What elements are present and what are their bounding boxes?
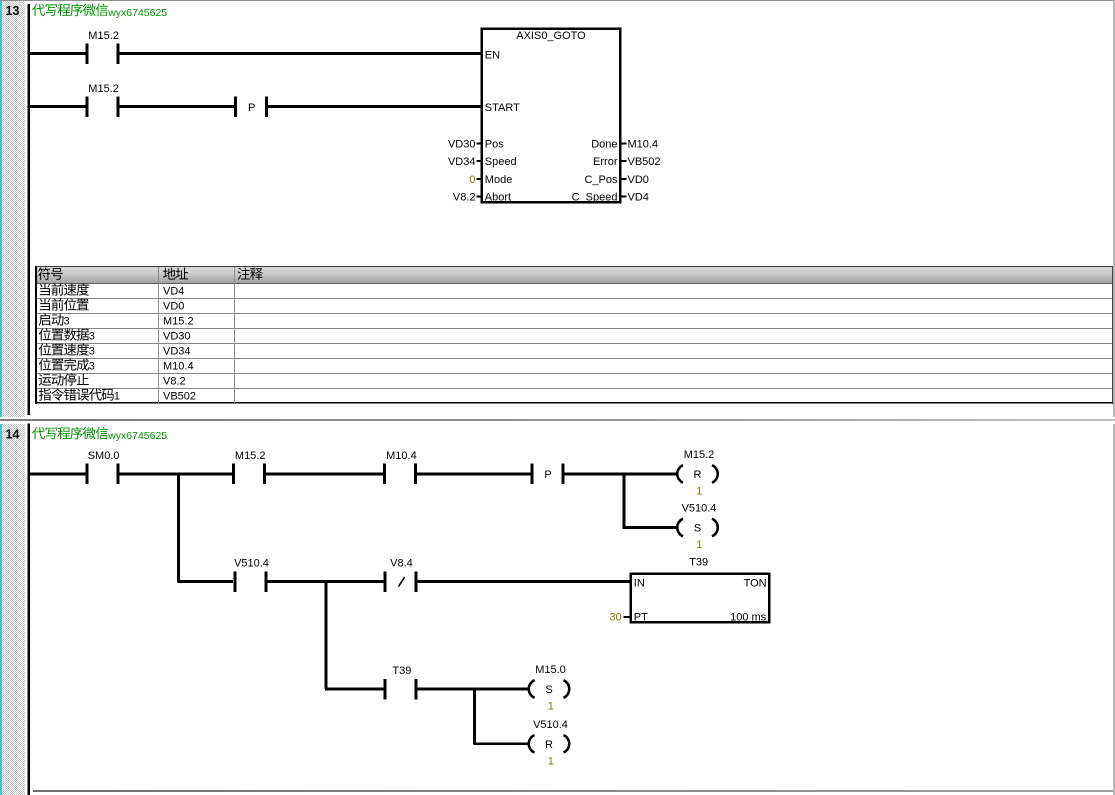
svg-text:wyx6745625: wyx6745625 bbox=[107, 7, 167, 19]
svg-text:Error: Error bbox=[593, 156, 618, 168]
bottom divider (next table edge) bbox=[33, 790, 1113, 792]
branch node C vertical bbox=[325, 580, 328, 689]
wire V8.4 to timer IN bbox=[416, 580, 631, 583]
svg-text:M15.2: M15.2 bbox=[88, 83, 119, 95]
svg-text:Pos: Pos bbox=[485, 139, 504, 151]
branch node to S coil bbox=[622, 473, 625, 528]
network 13/14 divider bbox=[0, 417, 1115, 424]
svg-text:M15.2: M15.2 bbox=[235, 450, 266, 462]
output operands Done/Error/C_Pos/C_Speed bbox=[621, 139, 661, 204]
svg-text:VD0: VD0 bbox=[628, 174, 649, 186]
coil R M15.2 bbox=[677, 449, 718, 497]
svg-text:3: 3 bbox=[64, 316, 70, 328]
contact M15.2 rung 2 bbox=[85, 83, 119, 117]
contact V8.4 (NC) bbox=[383, 558, 417, 592]
network 14 title comment bbox=[32, 427, 167, 442]
svg-text:M10.4: M10.4 bbox=[628, 139, 659, 151]
svg-text:1: 1 bbox=[114, 391, 120, 403]
svg-text:VD34: VD34 bbox=[448, 156, 476, 168]
input operands Pos/Speed/Mode/Abort bbox=[448, 139, 481, 204]
svg-text:13: 13 bbox=[6, 4, 20, 18]
svg-text:1: 1 bbox=[696, 539, 702, 551]
svg-text:VD0: VD0 bbox=[163, 301, 184, 313]
svg-text:M10.4: M10.4 bbox=[386, 450, 417, 462]
coil S V510.4 bbox=[677, 503, 718, 551]
wire M15.2 to contact M10.4 bbox=[265, 472, 384, 475]
svg-text:V510.4: V510.4 bbox=[533, 719, 568, 731]
svg-text:P: P bbox=[544, 469, 551, 481]
svg-text:IN: IN bbox=[634, 577, 645, 589]
svg-text:M15.0: M15.0 bbox=[535, 664, 566, 676]
contact V510.4 bbox=[233, 558, 269, 592]
symbol row V8.2 bbox=[39, 373, 186, 387]
column separator 1 bbox=[158, 267, 159, 403]
svg-text:S: S bbox=[545, 684, 552, 696]
svg-text:3: 3 bbox=[89, 346, 95, 358]
svg-text:Mode: Mode bbox=[485, 174, 513, 186]
symbol row VD34 bbox=[39, 343, 191, 357]
svg-text:S: S bbox=[694, 523, 701, 535]
svg-text:START: START bbox=[485, 102, 520, 114]
svg-text:C_Pos: C_Pos bbox=[584, 174, 618, 186]
power rail network 14 bbox=[27, 424, 30, 795]
contact T39 bbox=[384, 665, 418, 699]
svg-text:VD34: VD34 bbox=[163, 346, 191, 358]
svg-text:M15.2: M15.2 bbox=[163, 316, 194, 328]
svg-text:Speed: Speed bbox=[485, 156, 517, 168]
wire contact to P edge detector bbox=[119, 105, 234, 108]
svg-text:3: 3 bbox=[89, 361, 95, 373]
wire SM0.0 to contact M15.2 bbox=[119, 472, 233, 475]
symbol row VD30 bbox=[39, 328, 191, 342]
symbol table row separators bbox=[37, 298, 1113, 299]
svg-text:VD4: VD4 bbox=[163, 286, 184, 298]
top pane border bbox=[0, 0, 1115, 1]
svg-text:EN: EN bbox=[485, 50, 500, 62]
wire rail to contact SM0.0 bbox=[28, 472, 86, 475]
branch node D vertical bbox=[473, 688, 476, 744]
svg-text:Abort: Abort bbox=[485, 192, 511, 204]
left teal pane edge bbox=[0, 0, 2, 795]
wire branch C to contact T39 bbox=[325, 688, 385, 691]
symbol row M15.2 bbox=[39, 313, 194, 327]
svg-text:M15.2: M15.2 bbox=[88, 30, 119, 42]
svg-text:V510.4: V510.4 bbox=[234, 558, 269, 570]
symbol row VB502 bbox=[39, 388, 196, 402]
symbol row VD4 bbox=[40, 283, 185, 297]
svg-text:0: 0 bbox=[469, 174, 475, 186]
timer block T39 TON bbox=[631, 557, 770, 624]
svg-text:C_Speed: C_Speed bbox=[572, 192, 618, 204]
P positive edge contact bbox=[234, 96, 268, 117]
dithered network-number sidebar bbox=[2, 1, 25, 795]
svg-text:R: R bbox=[545, 739, 553, 751]
svg-text:V8.2: V8.2 bbox=[163, 376, 186, 388]
right pane border bbox=[1113, 0, 1115, 795]
wire M10.4 to P edge contact bbox=[416, 472, 530, 475]
wire T39 to coil S M15.0 bbox=[417, 688, 529, 691]
wire V510.4 to contact V8.4 bbox=[266, 580, 384, 583]
svg-text:R: R bbox=[694, 469, 702, 481]
symbol row M10.4 bbox=[39, 358, 194, 372]
svg-text:VD30: VD30 bbox=[448, 139, 476, 151]
svg-text:M15.2: M15.2 bbox=[684, 449, 715, 461]
wire branch A to contact V510.4 bbox=[177, 580, 233, 583]
svg-text:wyx6745625: wyx6745625 bbox=[107, 430, 167, 442]
P positive edge contact network 14 bbox=[531, 464, 565, 485]
power rail network 13 bbox=[27, 4, 30, 415]
wire P contact to START input bbox=[268, 105, 482, 108]
symbol table frame bbox=[35, 266, 1113, 404]
svg-text:TON: TON bbox=[744, 577, 767, 589]
contact M15.2 rung 1 bbox=[85, 30, 119, 64]
svg-text:1: 1 bbox=[696, 486, 702, 498]
svg-text:M10.4: M10.4 bbox=[163, 361, 194, 373]
svg-text:V510.4: V510.4 bbox=[682, 503, 717, 515]
svg-text:VB502: VB502 bbox=[163, 391, 196, 403]
svg-text:V8.4: V8.4 bbox=[390, 558, 413, 570]
symbol row VD0 bbox=[40, 298, 185, 312]
svg-text:Done: Done bbox=[591, 139, 617, 151]
wire branch to coil S V510.4 bbox=[623, 526, 678, 529]
svg-text:30: 30 bbox=[609, 611, 621, 623]
wire P to coil R M15.2 bbox=[565, 472, 678, 475]
svg-text:VD4: VD4 bbox=[628, 192, 649, 204]
svg-text:VB502: VB502 bbox=[628, 156, 661, 168]
function block AXIS0_GOTO bbox=[482, 29, 620, 204]
network 13 title comment bbox=[32, 4, 167, 19]
branch node A vertical bbox=[177, 473, 180, 582]
svg-text:T39: T39 bbox=[392, 665, 411, 677]
wire rail to contact M15.2 rung1 bbox=[28, 52, 86, 55]
contact M15.2 network 14 bbox=[232, 450, 266, 484]
symbol table header band bbox=[37, 267, 1112, 284]
svg-text:PT: PT bbox=[634, 611, 648, 623]
svg-text:SM0.0: SM0.0 bbox=[88, 450, 120, 462]
wire rail to contact M15.2 rung2 bbox=[28, 105, 86, 108]
svg-text:3: 3 bbox=[89, 331, 95, 343]
svg-text:14: 14 bbox=[6, 427, 20, 441]
symbol table header labels bbox=[38, 267, 263, 279]
svg-text:1: 1 bbox=[548, 701, 554, 713]
svg-text:T39: T39 bbox=[689, 557, 708, 569]
contact M10.4 bbox=[383, 450, 417, 484]
svg-text:V8.2: V8.2 bbox=[453, 192, 476, 204]
coil S M15.0 bbox=[529, 664, 570, 712]
svg-text:1: 1 bbox=[548, 755, 554, 767]
PT operand 30 bbox=[609, 611, 629, 623]
wire branch D to coil R V510.4 bbox=[473, 742, 529, 745]
svg-text:VD30: VD30 bbox=[163, 331, 191, 343]
svg-text:P: P bbox=[248, 102, 255, 114]
svg-text:AXIS0_GOTO: AXIS0_GOTO bbox=[516, 30, 586, 42]
coil R V510.4 bbox=[529, 719, 570, 767]
contact SM0.0 bbox=[85, 450, 119, 484]
wire contact to EN input bbox=[119, 52, 482, 55]
svg-text:100 ms: 100 ms bbox=[730, 611, 767, 623]
column separator 2 bbox=[234, 267, 235, 403]
